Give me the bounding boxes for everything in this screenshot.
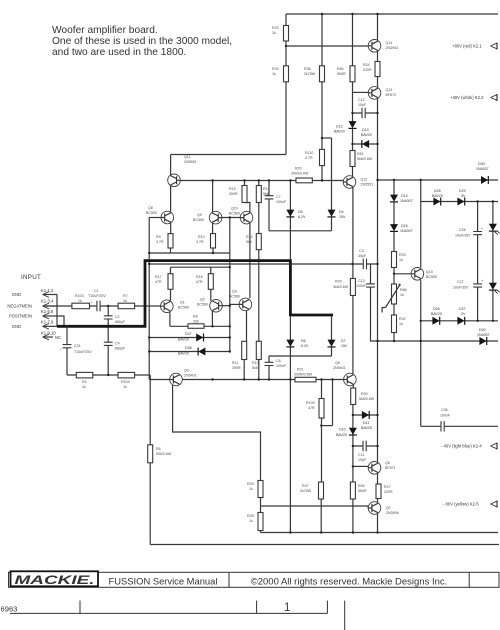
wire y379 Q3 collector to Q5 base xyxy=(182,379,343,381)
resistor R51 5k6/0.6W xyxy=(350,151,373,167)
wire x420.75 upper xyxy=(420,180,422,268)
svg-text:+: + xyxy=(481,279,483,283)
wire y326.3 R8 feedback row xyxy=(170,325,230,327)
svg-text:R47: R47 xyxy=(302,484,309,488)
junction (149.2,351.5) xyxy=(148,350,150,352)
svg-text:50k/0.6W: 50k/0.6W xyxy=(156,452,172,456)
wire y424 R109 link xyxy=(321,425,332,427)
svg-text:100nF: 100nF xyxy=(440,414,451,418)
svg-text:- 40V (light blue) K2-4: - 40V (light blue) K2-4 xyxy=(441,444,482,449)
wire R17 to Q1 collector xyxy=(170,289,172,301)
wire Q9 emitter to R10 xyxy=(212,222,214,233)
svg-text:D28: D28 xyxy=(434,189,441,193)
junction (394,273.8) xyxy=(393,273,395,275)
svg-text:Q14: Q14 xyxy=(386,41,393,45)
wire x477.6 C26 C27 column xyxy=(477,202,479,321)
junction (244.2,379.5) xyxy=(243,378,245,380)
svg-text:30pF: 30pF xyxy=(358,254,367,258)
svg-text:R12: R12 xyxy=(246,235,253,239)
wire D37 row y337.5 xyxy=(149,337,230,339)
junction (290.4,264) xyxy=(289,263,291,265)
junction (149.2,253) xyxy=(148,252,150,254)
svg-text:1k: 1k xyxy=(399,322,403,326)
svg-text:4.7R: 4.7R xyxy=(196,240,204,244)
wire x150 down left side xyxy=(149,375,151,545)
wire y201.5 D28 D29 row xyxy=(421,201,498,203)
svg-text:R11: R11 xyxy=(232,361,238,365)
svg-text:680pF: 680pF xyxy=(115,320,126,324)
connector K1 arrows xyxy=(43,292,58,340)
wire R11 bottom to y379 xyxy=(243,360,245,380)
wire Q10 collector to R15 xyxy=(245,203,250,213)
wire D6 top from thick xyxy=(289,317,291,341)
svg-text:6.2V: 6.2V xyxy=(298,215,306,219)
capacitor C1 T10uF/25V xyxy=(88,289,106,311)
junction (477.6,201.5) xyxy=(476,200,478,202)
resistor R47 2k75W xyxy=(300,482,324,499)
transistor Q15 xyxy=(411,268,437,281)
svg-text:R24: R24 xyxy=(363,63,370,67)
svg-text:D7: D7 xyxy=(341,339,346,343)
svg-text:1k: 1k xyxy=(272,72,276,76)
junction (229.8,217.5) xyxy=(229,216,231,218)
svg-text:BC550: BC550 xyxy=(426,275,437,279)
junction (229.8,337.5) xyxy=(229,336,231,338)
junction (269,180.5) xyxy=(268,179,270,181)
junction (215.8,180.5) xyxy=(211,179,213,181)
K2 off-page connector -40V (light blue) K2-4 xyxy=(441,444,482,449)
svg-text:R16: R16 xyxy=(196,275,203,279)
svg-text:220R: 220R xyxy=(363,68,372,72)
zener D4 15V xyxy=(328,210,336,217)
svg-text:C8: C8 xyxy=(276,359,281,363)
junction (377.5,415) xyxy=(376,414,378,416)
svg-text:and two are used in the 1800.: and two are used in the 1800. xyxy=(52,47,186,58)
svg-text:+80V (red) K2.1: +80V (red) K2.1 xyxy=(452,44,482,49)
wire Q1 emitter down to y326.3 xyxy=(169,311,171,326)
wire y426.3 C36 row xyxy=(421,425,498,427)
svg-text:D6: D6 xyxy=(301,339,306,343)
wire Q11 collector lead xyxy=(170,155,172,176)
transistor Q5 xyxy=(333,361,356,386)
svg-text:C12: C12 xyxy=(358,98,365,102)
wire Q5 emitter to R30 xyxy=(352,384,354,388)
resistor R7 1k xyxy=(118,294,135,309)
wire R83 bottom to rail xyxy=(352,499,354,533)
resistor R11 390R xyxy=(232,341,247,370)
wire y138 link xyxy=(322,137,332,139)
junction (394,341) xyxy=(393,340,395,342)
resistor R28 1k xyxy=(247,513,263,531)
wire y180.5 Q11 base to R20 to Q12 base xyxy=(180,180,343,182)
diode D12 BAV20 xyxy=(349,121,357,128)
resistor R23 1k xyxy=(272,26,289,42)
wire bottom border y544.5 xyxy=(150,544,499,546)
junction (258.8,180.5) xyxy=(258,179,260,181)
svg-text:Q11: Q11 xyxy=(184,155,191,159)
svg-text:BAV20: BAV20 xyxy=(431,312,442,316)
svg-text:1: 1 xyxy=(284,602,290,614)
resistor R24 220R xyxy=(363,62,380,77)
zener D27 2V xyxy=(457,317,464,325)
svg-text:R29: R29 xyxy=(335,280,342,284)
svg-text:R103: R103 xyxy=(75,294,84,298)
diode D38 BAV20 xyxy=(198,348,205,356)
svg-text:390R: 390R xyxy=(229,192,238,196)
svg-text:Q5: Q5 xyxy=(335,361,340,365)
junction (352.5,14) xyxy=(351,13,353,15)
svg-text:4.7R: 4.7R xyxy=(156,240,164,244)
svg-text:Q15: Q15 xyxy=(426,270,433,274)
junction (108.2,375) xyxy=(107,374,109,376)
wire x290 lower vertical to rail xyxy=(289,356,291,533)
wire D7 top from thick end xyxy=(331,317,333,341)
wire D13 branch xyxy=(353,143,378,145)
svg-text:1k: 1k xyxy=(272,31,276,35)
junction (290.4,379.5) xyxy=(289,378,291,380)
svg-text:390R: 390R xyxy=(232,366,241,370)
wire R23 column x286 xyxy=(285,14,287,46)
svg-text:BC560: BC560 xyxy=(229,295,240,299)
zener D5 6.2V xyxy=(286,210,294,217)
svg-text:T10uF/25V: T10uF/25V xyxy=(74,350,92,354)
junction (67,326.3) xyxy=(66,325,68,327)
svg-text:D26: D26 xyxy=(433,307,440,311)
wire R30 down through D11 D10 to R83 xyxy=(352,405,354,483)
resistor R25 1k xyxy=(272,66,289,82)
svg-text:6.2V: 6.2V xyxy=(301,344,309,348)
zener D6 6.2V xyxy=(286,340,294,347)
svg-text:1N4007: 1N4007 xyxy=(400,229,413,233)
junction (108.2,306) xyxy=(107,305,109,307)
wire Q15 emitter down to y320.8 xyxy=(420,280,422,321)
svg-text:R26: R26 xyxy=(247,482,254,486)
junction (229.8,351.5) xyxy=(229,350,231,352)
wire Q3 emitter loop to R26 R28 column xyxy=(173,385,261,481)
svg-text:2V: 2V xyxy=(461,312,466,316)
capacitor C26 10uF/35V xyxy=(455,227,483,238)
svg-text:C2: C2 xyxy=(115,315,120,319)
junction (290.4,532.5) xyxy=(289,531,291,533)
svg-text:BAV20: BAV20 xyxy=(336,433,347,437)
svg-text:- 80V (yellow) K2-5: - 80V (yellow) K2-5 xyxy=(443,502,479,507)
svg-text:4.7R: 4.7R xyxy=(305,156,313,160)
connector K1 pin labels xyxy=(7,288,61,340)
svg-text:Q7: Q7 xyxy=(386,506,391,510)
resistor R33 1k xyxy=(392,252,406,268)
wire D5 column x290.4 xyxy=(289,181,291,231)
svg-text:D37: D37 xyxy=(185,332,192,336)
resistor R4 1k xyxy=(76,372,93,389)
capacitor C2 680pF xyxy=(104,315,126,324)
junction (420.75,180) xyxy=(420,179,422,181)
wire Q10 emitter to Q4 collector xyxy=(249,222,251,298)
junction (377.5,180) xyxy=(376,179,378,181)
junction (420.75,320.8) xyxy=(420,320,422,322)
wire x149 vertical xyxy=(148,218,150,380)
svg-text:R23: R23 xyxy=(272,26,279,30)
svg-text:D14: D14 xyxy=(401,194,408,198)
svg-text:1k: 1k xyxy=(78,299,82,303)
resistor R110 4.7R xyxy=(305,149,325,165)
svg-text:D4: D4 xyxy=(339,210,344,214)
footer box xyxy=(9,572,500,587)
wire y320.8 D26 D27 row xyxy=(421,320,498,322)
wire GND bus x57 xyxy=(56,295,58,327)
resistor R16 47R xyxy=(196,274,213,290)
wire POSITMEIN step down to thick xyxy=(57,316,64,326)
fold mark vertical xyxy=(344,601,346,630)
svg-text:1k: 1k xyxy=(123,299,127,303)
svg-text:R9: R9 xyxy=(156,235,161,239)
wire x394 D14 D15 R33 R86 R32 column xyxy=(393,180,395,341)
svg-text:1k: 1k xyxy=(123,385,127,389)
svg-text:10uF/35V: 10uF/35V xyxy=(453,286,469,290)
svg-text:560R: 560R xyxy=(337,72,346,76)
svg-text:C36: C36 xyxy=(441,408,448,412)
junction (352.9,532.5) xyxy=(352,531,354,533)
resistor R27 220R xyxy=(376,484,393,499)
junction (322,14) xyxy=(321,13,323,15)
K2 off-page connector -80V (yellow) K2-5 xyxy=(443,502,479,507)
wire Q9 collector up to y180.5 xyxy=(212,181,214,213)
svg-text:D29: D29 xyxy=(459,189,466,193)
wire C2 C4 column x108.2 xyxy=(107,306,109,375)
svg-text:R51: R51 xyxy=(357,152,364,156)
svg-text:K1-5,6: K1-5,6 xyxy=(41,309,54,314)
transistor Q1 xyxy=(161,300,190,313)
svg-text:C4: C4 xyxy=(115,342,120,346)
svg-text:220R: 220R xyxy=(384,490,393,494)
svg-text:47R: 47R xyxy=(308,406,315,410)
svg-text:10pF: 10pF xyxy=(358,103,367,107)
svg-text:D5: D5 xyxy=(298,210,303,214)
svg-text:390R/0.6W: 390R/0.6W xyxy=(294,373,313,377)
junction (492.9,320.8) xyxy=(492,320,494,322)
svg-text:BC550: BC550 xyxy=(193,218,204,222)
svg-text:D10: D10 xyxy=(339,428,346,432)
resistor R6 50k/0.6W xyxy=(148,445,172,463)
transistor Q6 xyxy=(368,461,395,474)
wire Q8 base to x149 xyxy=(149,217,161,219)
svg-text:15V: 15V xyxy=(339,215,346,219)
wire Q15 base to x394 xyxy=(394,273,411,275)
wire x377.5 output column xyxy=(377,14,379,533)
wire Q9 Q10 base link xyxy=(222,217,240,219)
diode D10 BAV20 xyxy=(349,428,357,435)
svg-text:©2000 All rights reserved. Mac: ©2000 All rights reserved. Mackie Design… xyxy=(251,577,448,588)
resistor R8 33k xyxy=(188,315,204,329)
capacitor C13 100nF xyxy=(356,279,375,288)
svg-text:C31: C31 xyxy=(74,344,81,348)
svg-text:1k: 1k xyxy=(400,293,404,297)
footer divider 2 xyxy=(468,572,470,587)
svg-text:Q3: Q3 xyxy=(184,369,189,373)
svg-text:1N4007: 1N4007 xyxy=(400,199,413,203)
junction (212.6,379.5) xyxy=(211,378,213,380)
zener D7 15V xyxy=(328,340,336,347)
wire Q8 emitter to R9 xyxy=(170,222,172,233)
svg-text:GND: GND xyxy=(12,292,21,297)
svg-text:Q8: Q8 xyxy=(148,206,153,210)
wire y341 D40 row xyxy=(378,340,499,342)
svg-text:3V: 3V xyxy=(461,194,466,198)
wire R25 column and down to y154.5 xyxy=(285,46,287,155)
svg-text:C3: C3 xyxy=(359,249,364,253)
svg-text:BAV20: BAV20 xyxy=(178,352,189,356)
wire y154.5 Q11 collector rail xyxy=(171,154,286,156)
resistor R86 1k trimmer xyxy=(382,284,406,313)
svg-text:POSITMEIN: POSITMEIN xyxy=(9,314,32,319)
wire y230.8 xyxy=(269,230,332,232)
resistor R21 390R/0.6W xyxy=(294,368,316,382)
svg-text:10uF/35V: 10uF/35V xyxy=(455,234,471,238)
junction (229.8,305.7) xyxy=(229,305,231,307)
resistor R30 5k6/0.6W xyxy=(351,388,375,405)
junction (352.5,113) xyxy=(351,112,353,114)
svg-text:1k: 1k xyxy=(249,519,253,523)
transistor Q7 xyxy=(368,502,398,515)
svg-text:Q1: Q1 xyxy=(180,301,185,305)
diode D11 BAV20 xyxy=(362,411,369,419)
junction (377.5,144) xyxy=(376,143,378,145)
svg-text:3900/0.6W: 3900/0.6W xyxy=(291,172,309,176)
svg-text:1k: 1k xyxy=(82,385,86,389)
svg-text:D39: D39 xyxy=(478,162,485,166)
wire R9 R10 bottoms y253 xyxy=(149,248,230,253)
zener D29 3V xyxy=(457,198,464,206)
transistor Q12 xyxy=(343,176,373,189)
svg-text:R27: R27 xyxy=(384,485,391,489)
svg-text:C1: C1 xyxy=(94,289,99,293)
resistor R15 390R xyxy=(229,186,247,203)
capacitor C8 100nF xyxy=(265,359,287,368)
junction (352.9,446) xyxy=(352,445,354,447)
junction (332.5,379.5) xyxy=(331,378,333,380)
svg-text:2N3906: 2N3906 xyxy=(386,511,399,515)
junction (377.5,532.5) xyxy=(376,531,378,533)
wire Q1 base from R7 xyxy=(135,305,161,307)
junction (477.6,320.8) xyxy=(476,320,478,322)
wire C7 column x269 xyxy=(268,181,270,231)
transistor Q2 xyxy=(197,298,222,313)
svg-text:47R: 47R xyxy=(196,280,203,284)
svg-text:K1-3,4: K1-3,4 xyxy=(41,299,54,304)
diode D37 BAV20 xyxy=(196,334,203,342)
wire y506 to Q7 base xyxy=(261,506,369,508)
diode labels xyxy=(178,125,490,438)
junction (321.2,532.5) xyxy=(320,531,322,533)
capacitor C3 30pF xyxy=(358,249,367,269)
junction (377.5,341) xyxy=(376,340,378,342)
junction (258.8,379.5) xyxy=(258,378,260,380)
svg-text:Q4: Q4 xyxy=(232,290,237,294)
svg-text:D40: D40 xyxy=(479,328,486,332)
svg-text:D12: D12 xyxy=(336,125,343,129)
transistor Q9 xyxy=(193,211,222,224)
svg-text:Q13: Q13 xyxy=(386,88,393,92)
wire input NEGATMEIN to R103 xyxy=(44,305,72,307)
svg-text:2N5401: 2N5401 xyxy=(333,366,346,370)
svg-text:R33: R33 xyxy=(399,253,406,257)
svg-text:T10uF/25V: T10uF/25V xyxy=(88,294,106,298)
junction (244.5,180.5) xyxy=(243,179,245,181)
resistor R38 2k75W xyxy=(304,66,325,82)
svg-text:BAV20: BAV20 xyxy=(432,194,443,198)
resistor R83 560R xyxy=(350,482,367,499)
svg-text:R13: R13 xyxy=(252,361,259,365)
svg-text:Woofer amplifier board.: Woofer amplifier board. xyxy=(52,25,158,36)
wire x332.5 from y379 down xyxy=(332,380,334,426)
junction (229.8,267.2) xyxy=(229,266,231,268)
capacitor C36 100nF xyxy=(440,408,451,431)
svg-text:2N5551: 2N5551 xyxy=(184,160,197,164)
svg-text:R30: R30 xyxy=(361,392,368,396)
svg-text:15V: 15V xyxy=(341,344,348,348)
svg-text:GND: GND xyxy=(12,324,21,329)
svg-text:2N5401: 2N5401 xyxy=(184,374,197,378)
wire x492.9 LED column xyxy=(492,202,494,321)
resistor R10 4.7R xyxy=(196,234,216,248)
diode D39 1N4007 xyxy=(481,176,488,184)
svg-text:R86: R86 xyxy=(400,288,407,292)
wire R109 column x321.5 xyxy=(320,380,322,533)
svg-text:R38: R38 xyxy=(304,67,311,71)
svg-text:5k6/0.6W: 5k6/0.6W xyxy=(357,157,373,161)
svg-text:BF872: BF872 xyxy=(386,93,397,97)
resistor R20 3900/0.6W xyxy=(291,167,312,183)
svg-text:D11: D11 xyxy=(363,421,369,425)
wire y267.2 R17 R16 tops xyxy=(171,267,230,274)
svg-text:R20: R20 xyxy=(295,167,302,171)
svg-text:NC: NC xyxy=(55,335,61,340)
svg-text:BAV20: BAV20 xyxy=(334,130,345,134)
junction (492.9,201.5) xyxy=(492,200,494,202)
wire R26 to R28 with Q7 base tap xyxy=(260,498,262,513)
wire x229.8 vertical xyxy=(229,218,231,352)
svg-text:MACKIE.: MACKIE. xyxy=(15,575,95,587)
wire R103 to C1 to R7 xyxy=(90,305,119,307)
svg-text:BAV20: BAV20 xyxy=(178,338,189,342)
junction (229.8,326.3) xyxy=(229,325,231,327)
junction (321.5,379.5) xyxy=(320,378,322,380)
wire R13 bottom to y379 xyxy=(258,360,260,380)
capacitor C4 680pF xyxy=(104,342,126,351)
svg-text:R4: R4 xyxy=(82,380,87,384)
junction (290.4,180.5) xyxy=(289,179,291,181)
wire Q3 base lead xyxy=(149,379,170,381)
transistor Q8 xyxy=(146,206,174,224)
K2 off-page connector +40V (white) K2.2 xyxy=(450,95,484,100)
junction (352.5,144) xyxy=(351,143,353,145)
diode D26 BAV20 xyxy=(432,317,439,325)
transistor Q14 xyxy=(368,40,398,53)
transistor Q13 xyxy=(368,87,396,100)
wire y356 D6 D7 bottoms xyxy=(269,347,332,356)
svg-text:C7: C7 xyxy=(276,195,281,199)
wire y375 R4 R104 row xyxy=(67,374,150,376)
svg-text:C26: C26 xyxy=(459,228,466,232)
wire x352.5 R84 D12 R51 column xyxy=(352,14,354,181)
junction (352.9,415) xyxy=(352,414,354,416)
junction (215.4,326.3) xyxy=(211,325,213,327)
svg-text:BAV20: BAV20 xyxy=(361,133,372,137)
resistor R103 1k xyxy=(72,294,90,309)
svg-text:2N5551: 2N5551 xyxy=(361,183,374,187)
svg-text:BC560: BC560 xyxy=(178,306,189,310)
svg-text:R28: R28 xyxy=(247,514,254,518)
junction (269,379.5) xyxy=(268,378,270,380)
